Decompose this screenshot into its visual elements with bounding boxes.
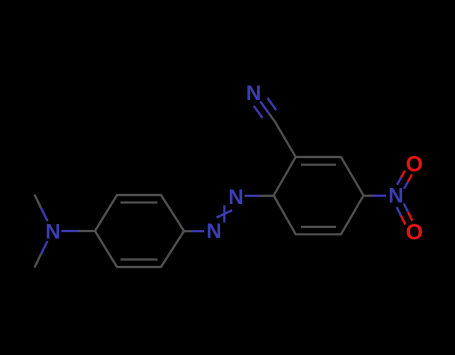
bond N(CH3) upper methyl bbox=[35, 195, 48, 222]
svg-text:O: O bbox=[406, 151, 423, 176]
svg-text:N: N bbox=[206, 220, 221, 243]
bond ring2 right vertex to nitro N bbox=[364, 195, 387, 197]
ring 2 double bond inner line top bbox=[301, 164, 336, 166]
svg-text:N: N bbox=[246, 82, 261, 105]
ring 2 double bond inner line bottom bbox=[301, 226, 336, 228]
svg-text:O: O bbox=[406, 220, 423, 245]
svg-text:N: N bbox=[228, 186, 243, 209]
bond azo N2 to ring2 left vertex bbox=[245, 195, 274, 197]
nitro N=O upper double bond bbox=[397, 171, 412, 189]
bond N-C1 (amine to ring 1 left vertex) bbox=[62, 230, 96, 232]
bond ring1 C4 to azo N1 bbox=[184, 230, 204, 232]
bond ring2 TL to nitrile carbon bbox=[275, 122, 296, 157]
nitrile triple bond C#N bbox=[254, 98, 276, 122]
svg-text:N: N bbox=[45, 221, 60, 244]
svg-text:N: N bbox=[388, 184, 403, 207]
ring 1 double bond inner line bottom bbox=[121, 258, 158, 260]
ring 1 benzene outline bbox=[95, 195, 184, 267]
bond N(CH3) lower methyl bbox=[35, 241, 48, 268]
ring 2 benzene outline bbox=[274, 157, 364, 234]
nitro N=O lower double bond bbox=[397, 204, 413, 225]
ring 1 double bond inner line top bbox=[121, 201, 158, 203]
azo N1=N2 crossed double bond bbox=[217, 205, 233, 222]
